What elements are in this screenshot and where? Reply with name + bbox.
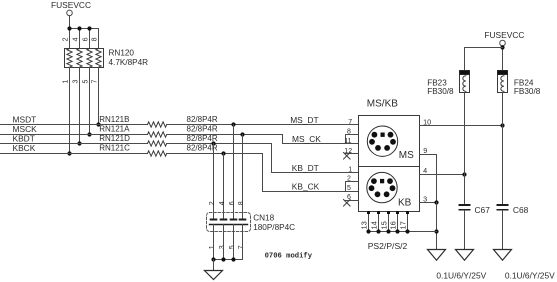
wire rail to ground — [213, 260, 215, 271]
wire FB23 down to C67 — [464, 93, 466, 205]
connector divider — [359, 166, 420, 168]
svg-text:5: 5 — [83, 80, 90, 84]
wire rail to FB23 — [465, 47, 503, 49]
junction RN120/MSCK — [87, 132, 91, 136]
mini-DIN KB face — [367, 172, 397, 202]
svg-text:16: 16 — [389, 221, 398, 229]
wire RN120 pin8 drop — [98, 29, 100, 49]
svg-text:1: 1 — [348, 166, 352, 173]
wire tie pin2/pin5 — [345, 182, 347, 192]
svg-text:MSCK: MSCK — [13, 124, 38, 134]
ground (below CN18) — [205, 271, 223, 280]
junction shield pin17 — [405, 229, 409, 233]
wire KBCK drop down — [262, 154, 264, 192]
svg-text:0.1U/6/Y/25V: 0.1U/6/Y/25V — [505, 271, 555, 281]
capacitor C68 — [497, 204, 509, 211]
svg-text:MSDT: MSDT — [13, 114, 37, 124]
svg-text:5: 5 — [347, 185, 351, 192]
wire CN18 bottom rail — [214, 259, 243, 261]
power symbol FUSEVCC (top left) — [51, 0, 91, 16]
wire CN18 pin5 down — [233, 225, 235, 260]
wire horizontal rail feeding RN120 — [70, 28, 99, 30]
svg-text:1: 1 — [209, 245, 216, 249]
svg-text:4: 4 — [219, 201, 226, 205]
wire KBCK to connector pin 5 — [263, 191, 359, 193]
wire MSCK to connector pin 11 — [283, 143, 359, 145]
wire FB23 top drop — [464, 48, 466, 71]
svg-text:13: 13 — [360, 221, 369, 229]
svg-text:FUSEVCC: FUSEVCC — [484, 30, 524, 40]
svg-text:FB30/8: FB30/8 — [514, 87, 541, 96]
wire MSCK row left segment — [0, 134, 148, 136]
resistor network RN120 box — [65, 49, 104, 68]
svg-text:0.1U/6/Y/25V: 0.1U/6/Y/25V — [436, 271, 486, 281]
svg-text:3: 3 — [73, 80, 80, 84]
resistor RN121D zigzag — [148, 141, 167, 146]
wire MSDT row to connector pin 7 — [167, 124, 359, 126]
ferrite bead FB24 — [498, 71, 508, 93]
capacitor CN18 element 3 top plate — [230, 219, 238, 221]
wire C67 to ground — [464, 211, 466, 250]
svg-text:1: 1 — [63, 80, 70, 84]
resistor RN121A zigzag — [148, 132, 167, 137]
svg-text:82/8P4R: 82/8P4R — [187, 125, 218, 134]
wire pin 9 down to pin 3 — [436, 155, 438, 203]
wire KBCK row middle segment — [167, 153, 263, 155]
svg-text:7: 7 — [348, 119, 352, 126]
wire shield rail — [369, 231, 437, 233]
svg-text:FUSEVCC: FUSEVCC — [51, 0, 91, 10]
junction shield pin13 — [366, 229, 370, 233]
power symbol FUSEVCC (top right) — [484, 30, 524, 46]
svg-text:15: 15 — [380, 221, 389, 229]
wire RN120 pin1 to KBCK — [69, 68, 71, 154]
svg-text:9: 9 — [423, 146, 427, 155]
svg-text:4: 4 — [423, 166, 427, 175]
svg-text:11: 11 — [344, 138, 351, 145]
svg-text:0706 modify: 0706 modify — [265, 253, 313, 261]
resistor RN121C zigzag — [148, 151, 167, 156]
resistor RN121B zigzag — [148, 122, 167, 127]
no-connect X pin 12 — [344, 153, 351, 160]
svg-text:RN121B: RN121B — [99, 115, 129, 124]
svg-text:C68: C68 — [513, 205, 529, 215]
wire pin 9 stub — [420, 154, 437, 156]
junction KBCK/CN18 — [221, 151, 225, 155]
svg-text:6: 6 — [229, 201, 236, 205]
junction pin10/FB24 — [500, 123, 504, 127]
junction rail pin3 — [221, 257, 225, 261]
wire CN18 pin1 down — [213, 225, 215, 260]
svg-text:3: 3 — [219, 245, 226, 249]
wire CN18 pin8 drop (MSCK) — [242, 135, 244, 219]
junction RN120/KBDT — [77, 141, 81, 145]
svg-text:7: 7 — [92, 80, 99, 84]
svg-text:CN18: CN18 — [253, 214, 274, 223]
wire CN18 pin4 drop (KBCK) — [223, 154, 225, 219]
junction MSDT/CN18 — [231, 122, 235, 126]
junction shield pin14 — [376, 229, 380, 233]
svg-text:8: 8 — [238, 201, 245, 205]
junction FUSEVCC rail — [500, 45, 504, 49]
junction rail/pin4 — [77, 26, 81, 30]
svg-text:PS2/P/S/2: PS2/P/S/2 — [368, 241, 408, 251]
wire KBCK row left segment — [0, 153, 148, 155]
svg-text:5: 5 — [229, 245, 236, 249]
wire RN120 pin2 drop — [69, 29, 71, 49]
wire pin3 down to ground — [436, 203, 438, 250]
no-connect X pin 6 — [344, 200, 351, 207]
junction RN120/KBCK — [67, 151, 71, 155]
capacitor network CN18 dashed box — [207, 213, 251, 232]
wire from FUSEVCC circle down — [69, 16, 71, 29]
svg-text:KB: KB — [398, 198, 412, 209]
junction rail pin5 — [231, 257, 235, 261]
pin 6 stub — [346, 200, 359, 202]
junction MSCK/CN18 — [240, 132, 244, 136]
wire RN120 pin6 drop — [89, 29, 91, 49]
svg-text:MS_DT: MS_DT — [290, 115, 318, 125]
wire CN18 pin6 drop (MSDT) — [233, 125, 235, 219]
capacitor CN18 element 4 top plate — [239, 219, 247, 221]
junction pin3/pin9 — [434, 200, 438, 204]
ferrite bead FB23 — [460, 71, 470, 93]
wire pin 10 to FB24 branch — [420, 125, 503, 127]
junction rail/pin2 — [67, 26, 71, 30]
wire tie pin8/pin11 — [345, 135, 347, 144]
connector shield pins 13-17 — [369, 212, 408, 232]
svg-text:2: 2 — [209, 201, 216, 205]
svg-text:8: 8 — [92, 37, 99, 41]
pin 8 stub — [346, 134, 359, 136]
svg-text:82/8P4R: 82/8P4R — [187, 115, 218, 124]
capacitor CN18 common plate — [210, 224, 248, 226]
svg-text:4: 4 — [73, 37, 80, 41]
ground (C67) — [456, 250, 474, 261]
wire pin 3 stub — [420, 202, 437, 204]
svg-text:7: 7 — [238, 245, 245, 249]
svg-text:10: 10 — [423, 117, 431, 126]
resistor RN120 element 3-4 zigzag — [77, 49, 82, 68]
wire CN18 pin7 down — [242, 225, 244, 260]
mini-DIN MS face — [367, 126, 397, 156]
capacitor C67 — [459, 204, 471, 211]
svg-text:FB30/8: FB30/8 — [427, 87, 454, 96]
wire FB24 down to C68 — [502, 93, 504, 205]
junction shield pin16 — [395, 229, 399, 233]
wire RN120 pin4 drop — [79, 29, 81, 49]
resistor RN120 element 5-6 zigzag — [87, 49, 92, 68]
svg-text:KBCK: KBCK — [13, 143, 36, 153]
svg-text:6: 6 — [83, 37, 90, 41]
svg-text:MS_CK: MS_CK — [292, 134, 321, 144]
wire MSDT row left segment — [0, 124, 148, 126]
wire CN18 pin2 drop (KBDT) — [213, 144, 215, 219]
svg-text:180P/8P4C: 180P/8P4C — [253, 223, 295, 232]
wire C68 to ground — [502, 211, 504, 250]
junction rail pin1 — [211, 257, 215, 261]
svg-text:4.7K/8P4R: 4.7K/8P4R — [109, 58, 149, 67]
wire MSCK row middle segment — [167, 134, 283, 136]
shield pin pads on box bottom — [367, 211, 409, 214]
ground (shield) — [428, 250, 446, 261]
ground (C68) — [494, 250, 512, 261]
wire FUSEVCC down — [502, 46, 504, 71]
resistor RN120 element 7-8 zigzag — [96, 49, 101, 68]
junction shield pin15 — [386, 229, 390, 233]
connector MS/KB box — [359, 116, 420, 212]
svg-text:C67: C67 — [475, 205, 491, 215]
svg-text:MS: MS — [399, 150, 414, 161]
wire RN120 pin7 to MSDT — [98, 68, 100, 125]
svg-text:KB_CK: KB_CK — [292, 182, 320, 192]
svg-text:RN121A: RN121A — [99, 125, 130, 134]
wire KBDT row left segment — [0, 143, 148, 145]
svg-text:RN120: RN120 — [109, 48, 135, 57]
pin 2 stub — [346, 181, 359, 183]
resistor RN120 element 1-2 zigzag — [67, 49, 72, 68]
wire RN120 pin3 to KBDT — [79, 68, 81, 144]
wire RN120 pin5 to MSCK — [89, 68, 91, 135]
junction KBDT/CN18 — [211, 141, 215, 145]
svg-text:14: 14 — [370, 221, 379, 229]
wire KBDT drop down — [271, 144, 273, 173]
pin 12 stub — [346, 153, 359, 155]
svg-text:17: 17 — [399, 221, 408, 229]
svg-text:RN121C: RN121C — [99, 144, 130, 153]
capacitor CN18 element 1 top plate — [210, 219, 218, 221]
svg-text:RN121D: RN121D — [99, 134, 130, 143]
svg-text:KB_DT: KB_DT — [292, 163, 319, 173]
wire CN18 pin3 down — [223, 225, 225, 260]
junction shield rail / ground drop — [434, 229, 438, 233]
junction pin4/FB23 — [462, 172, 466, 176]
svg-text:MS/KB: MS/KB — [367, 99, 398, 110]
wire pin 4 to FB23 branch — [420, 174, 465, 176]
capacitor CN18 element 2 top plate — [220, 219, 228, 221]
wire KBDT to connector pin 1 — [272, 172, 359, 174]
junction RN120/MSDT — [96, 122, 100, 126]
wire MSCK step down — [282, 135, 284, 144]
svg-text:2: 2 — [63, 37, 70, 41]
wire KBDT row middle segment — [167, 143, 272, 145]
junction rail/pin6 — [87, 26, 91, 30]
